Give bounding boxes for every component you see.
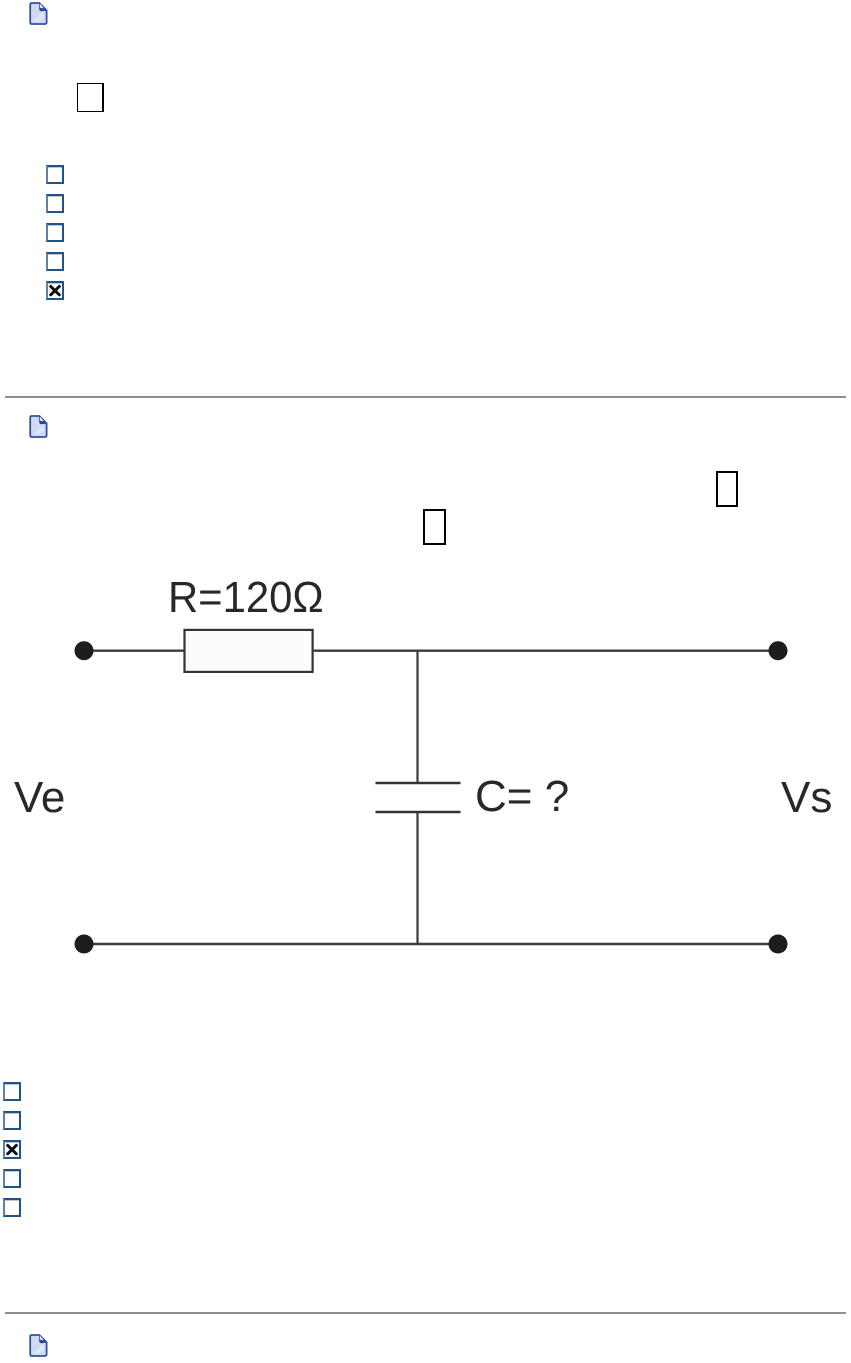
checkbox group 1, option 2 [46, 194, 64, 213]
resistor R=120Ω [185, 630, 313, 672]
document icon 3 [29, 1334, 48, 1357]
label Vs [781, 773, 832, 823]
divider 1 [5, 396, 846, 398]
node dot: bottom-right (Vs-) [769, 935, 788, 954]
wire: bottom rail [83, 943, 779, 945]
node dot: top-right (Vs+) [769, 641, 788, 660]
checkbox group 2, option 2 [3, 1111, 21, 1130]
label Ve [14, 773, 65, 823]
circuit schematic drawing [0, 560, 851, 970]
node dot: bottom-left (Ve-) [75, 935, 94, 954]
missing-glyph box (large) [77, 83, 104, 112]
missing-glyph box (right, upper) [716, 471, 739, 507]
checkbox group 2, option 1 [3, 1082, 21, 1101]
capacitor C bottom plate [376, 811, 461, 814]
label C value [475, 772, 569, 822]
capacitor C top plate [376, 782, 461, 785]
document icon 1 [29, 2, 48, 25]
checkbox group 2, option 3 (checked) [3, 1140, 21, 1159]
checkbox group 1, option 1 [46, 165, 64, 184]
wire: top, resistor to Vs+ [313, 650, 778, 652]
checkbox group 1, option 4 [46, 252, 64, 271]
divider 2 [5, 1312, 846, 1314]
wire: capacitor bottom plate down to bottom rail [416, 812, 418, 944]
wire: top, Ve+ to resistor [84, 650, 185, 652]
checkbox group 2, option 5 [3, 1198, 21, 1217]
node dot: top-left (Ve+) [75, 641, 94, 660]
checkbox group 1, option 3 [46, 223, 64, 242]
missing-glyph box (center) [423, 509, 446, 545]
checkbox group 2, option 4 [3, 1169, 21, 1188]
wire: junction down to capacitor top plate [416, 651, 418, 783]
checkbox group 1, option 5 (checked) [46, 281, 64, 300]
label R=120Ω value [168, 573, 324, 623]
document icon 2 [29, 415, 48, 438]
